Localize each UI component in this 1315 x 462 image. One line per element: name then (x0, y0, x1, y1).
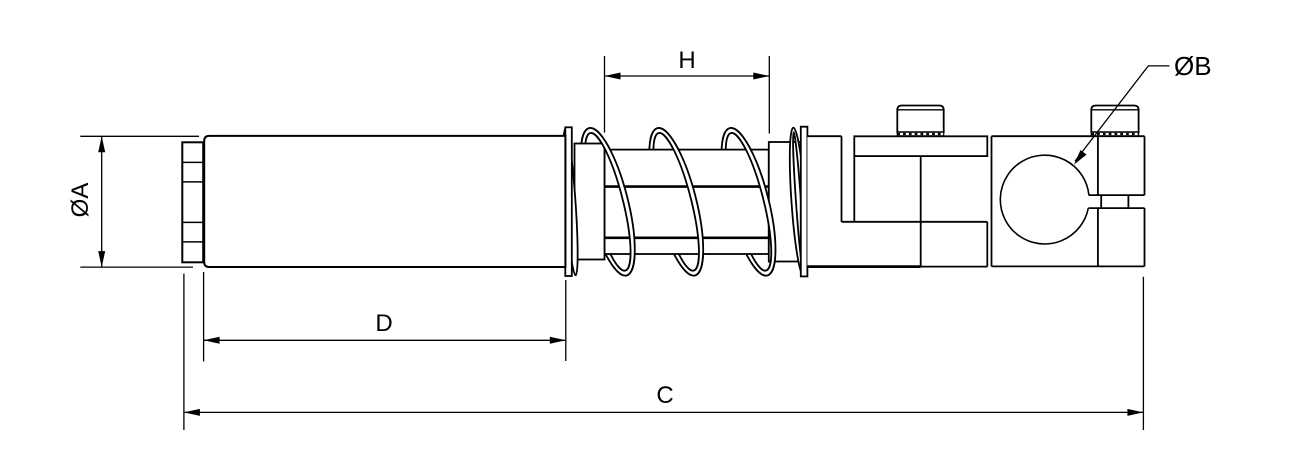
spring right end turn (786, 127, 810, 277)
svg-text:C: C (656, 382, 673, 409)
dim A line (101, 136, 103, 267)
svg-text:ØB: ØB (1174, 51, 1212, 81)
spring left end turn (560, 128, 580, 275)
right flange disc (801, 127, 808, 277)
spring front strands (589, 123, 646, 275)
right spring seat collar (769, 142, 801, 262)
clamp screw S1 on fork (897, 106, 943, 136)
svg-text:D: D (375, 310, 392, 337)
dim H line (605, 75, 770, 77)
dim D line (204, 339, 566, 341)
svg-text:ØA: ØA (67, 183, 94, 218)
arrowheads D (204, 337, 220, 344)
dim A extension lines (80, 135, 199, 137)
knurled end cap (182, 142, 203, 262)
bore hole circle B (1000, 155, 1089, 244)
svg-text:H: H (678, 47, 695, 74)
dim C line (184, 411, 1144, 413)
left flange disc (565, 127, 572, 276)
dimensions (80, 56, 1169, 430)
fork top plate (854, 136, 987, 156)
clamp screw S2 on block (1091, 106, 1138, 136)
dim D extension lines (203, 272, 205, 362)
arrowheads H (605, 73, 621, 80)
arrowheads A (98, 136, 105, 152)
shaft under spring (605, 150, 769, 254)
shaft step lines (605, 187, 769, 238)
dim C extension lines (183, 274, 185, 430)
arrowhead B leader (1074, 150, 1087, 165)
left spring seat collar (575, 144, 605, 260)
leader line B (1075, 66, 1170, 161)
main cylinder body (204, 136, 565, 267)
clevis rod and fork (807, 136, 987, 266)
spring back coils (570, 123, 646, 280)
dim H extension lines (604, 56, 606, 133)
clamp block (992, 136, 1145, 266)
arrowheads C (184, 409, 200, 416)
